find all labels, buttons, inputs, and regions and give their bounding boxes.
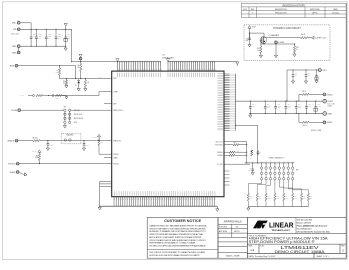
svg-text:OPT: OPT [308, 105, 311, 107]
svg-text:OPT: OPT [252, 105, 255, 107]
svg-text:C9: C9 [246, 38, 248, 40]
capacitor CIN5 [65, 29, 67, 37]
resistor R8 (OPT) [251, 150, 253, 156]
revision history table [242, 3, 347, 17]
svg-text:470uF: 470uF [318, 105, 322, 107]
svg-text:C16: C16 [308, 104, 311, 106]
U1 top-left VIN pin comb with bus [117, 61, 161, 71]
ground [249, 114, 251, 116]
wire PGOOD to U1 [19, 163, 112, 165]
capacitor C13 [275, 101, 277, 107]
svg-text:16V: 16V [48, 38, 50, 40]
svg-text:OPT: OPT [249, 170, 252, 172]
svg-text:OPT: OPT [37, 98, 40, 100]
svg-text:VOUT_LCL: VOUT_LCL [216, 141, 223, 143]
svg-text:Milpitas, CA 95035: Milpitas, CA 95035 [297, 222, 311, 225]
svg-text:TECHNOLOGY APPLICATIONS ENGINE: TECHNOLOGY APPLICATIONS ENGINEERING FOR … [149, 244, 206, 247]
svg-text:LINEAR: LINEAR [269, 221, 294, 230]
svg-text:APP ENG: APP ENG [219, 230, 228, 233]
node VOUT (net arrow) [248, 26, 251, 29]
svg-text:VERIFY PROPER AND RELIABLE OPE: VERIFY PROPER AND RELIABLE OPERATION IN … [149, 233, 203, 236]
svg-text:C13: C13 [278, 104, 281, 106]
svg-text:STEP-DOWN POWER μ MODULE ®: STEP-DOWN POWER μ MODULE ® [249, 240, 316, 244]
svg-text:PGOOD: PGOOD [8, 164, 16, 166]
resistor R12 [247, 193, 249, 201]
svg-text:VOUT: VOUT [322, 70, 326, 72]
svg-text:fSET: fSET [113, 104, 116, 106]
svg-text:R1: R1 [78, 65, 80, 67]
svg-text:VOSNS-: VOSNS- [217, 155, 223, 157]
svg-text:1uF: 1uF [246, 40, 249, 42]
turret E10 SGND [16, 171, 19, 174]
wire feed collector vertical [246, 142, 248, 163]
capacitor C2 [83, 141, 85, 144]
svg-text:1.21k: 1.21k [294, 197, 297, 199]
svg-text:100uF: 100uF [267, 105, 271, 107]
ground [247, 207, 249, 209]
svg-text:1uF: 1uF [295, 75, 297, 77]
resistor R1 [80, 63, 82, 71]
svg-text:COMP: COMP [21, 95, 25, 97]
turret E15 VOUT [318, 69, 321, 72]
svg-text:R3: R3 [63, 81, 65, 83]
ground [46, 148, 49, 151]
turret E1 VIN+ [17, 21, 20, 24]
resistor R14 [265, 193, 267, 201]
svg-text:2.61k: 2.61k [285, 197, 288, 199]
svg-text:LINEAR TECHNOLOGY HAS MADE A B: LINEAR TECHNOLOGY HAS MADE A BEST EFFORT… [149, 225, 207, 228]
ground [84, 89, 87, 92]
svg-text:R19: R19 [310, 196, 312, 198]
svg-text:10k: 10k [257, 50, 259, 52]
wire RUN [18, 66, 76, 79]
svg-text:R16: R16 [285, 196, 287, 198]
Linear Technology logo [253, 221, 268, 229]
svg-text:R13: R13 [296, 47, 299, 49]
diode D1 [78, 79, 80, 81]
resistor R10 [302, 121, 309, 123]
svg-text:R13: R13 [259, 196, 261, 198]
turret E8 TRACK [15, 139, 18, 142]
turret E3 GND [17, 45, 20, 48]
node PVIN arrow [79, 54, 82, 57]
svg-text:CIRCUIT THAT MEETS CUSTOMER-SU: CIRCUIT THAT MEETS CUSTOMER-SUPPLIED SPE… [149, 227, 206, 230]
svg-text:R8 84.5k: R8 84.5k [33, 137, 39, 139]
node 4-STEP_CLK input arrow [308, 37, 311, 39]
wire TRACK [18, 140, 33, 142]
wire VOSNS- row [298, 114, 300, 123]
svg-text:100uF: 100uF [278, 105, 282, 107]
svg-text:GND: GND [12, 52, 17, 54]
svg-text:0.01uF: 0.01uF [50, 145, 54, 147]
turret E14 VOSNS- [323, 121, 326, 124]
svg-text:JP2: JP2 [296, 169, 299, 171]
svg-text:CIN2: CIN2 [38, 34, 41, 36]
svg-text:R17: R17 [294, 196, 296, 198]
svg-text:GND: GND [12, 46, 17, 48]
U1 bottom GND pin comb with bus [100, 197, 218, 207]
resistor R13 [256, 193, 258, 201]
svg-text:1: 1 [252, 12, 253, 14]
svg-text:VIN: VIN [13, 29, 17, 31]
turret E2 VIN [17, 28, 20, 31]
svg-text:APP'D: APP'D [234, 230, 240, 233]
svg-text:APPLICATION. COMPONENT SUBSTIT: APPLICATION. COMPONENT SUBSTITUTION AND … [149, 236, 202, 239]
turret E4 GND [17, 51, 20, 54]
svg-text:CIN5: CIN5 [68, 34, 71, 36]
transistor Q1 [263, 33, 265, 37]
svg-text:OPT: OPT [56, 72, 59, 74]
wire VOUT to Q1 drain [250, 32, 265, 34]
svg-text:C17: C17 [318, 104, 321, 106]
ground [65, 46, 67, 48]
ground (tilted) [19, 172, 23, 174]
svg-text:BURST MODE: BURST MODE [74, 118, 83, 120]
wire [309, 93, 323, 95]
resistor R12 [260, 46, 262, 54]
svg-text:IC No.: IC No. [260, 245, 265, 247]
ground [304, 81, 307, 84]
turret E9 PGOOD [16, 162, 19, 165]
svg-text:22uF: 22uF [58, 36, 61, 38]
svg-text:RUN: RUN [113, 78, 116, 80]
ground [248, 45, 251, 48]
capacitor C9 [249, 33, 251, 38]
svg-text:MODE_PLLIN: MODE_PLLIN [113, 110, 123, 112]
wire GND rail [249, 113, 323, 115]
U1 bottom-right config stubs [224, 171, 230, 185]
wire resistor bank bottom rail [247, 201, 249, 207]
svg-text:DEMO CIRCUIT 1588A: DEMO CIRCUIT 1588A [275, 250, 326, 254]
svg-text:6.3V: 6.3V [288, 107, 291, 109]
svg-text:R14: R14 [268, 196, 270, 198]
sheet right border [345, 3, 347, 258]
svg-text:Fax: (408)434-0507: Fax: (408)434-0507 [297, 228, 312, 230]
wire jumper top rail [245, 162, 295, 164]
svg-text:REVISION HISTORY: REVISION HISTORY [282, 4, 305, 7]
svg-text:DATE: Thursday, May 13, 2010: DATE: Thursday, May 13, 2010 [249, 255, 275, 258]
svg-text:VOSNS+: VOSNS+ [327, 94, 333, 96]
wire COMP pin to RC row [49, 92, 112, 96]
wire CLKIN to JP1 [21, 109, 64, 111]
svg-text:TRACK: TRACK [7, 140, 14, 143]
svg-text:SCALE = NONE: SCALE = NONE [226, 255, 241, 258]
U1 left PGND stubs to ground [100, 180, 112, 182]
svg-text:6.3V: 6.3V [298, 107, 301, 109]
resistor R4 [84, 79, 86, 80]
wire VOUT rail [236, 100, 323, 102]
svg-text:0.1uF: 0.1uF [86, 145, 89, 147]
svg-text:CLKIN: CLKIN [11, 110, 17, 112]
capacitor C11 [249, 101, 251, 107]
ground [275, 44, 277, 55]
turret E5 PVIN [79, 57, 82, 60]
svg-text:R16 1k: R16 1k [301, 34, 306, 36]
resistor R15 [274, 193, 276, 201]
svg-text:56uF: 56uF [68, 36, 71, 38]
svg-text:4-STEP: 4-STEP [278, 42, 285, 44]
svg-text:CUSTOMER NOTICE: CUSTOMER NOTICE [164, 219, 202, 223]
svg-text:13.3k: 13.3k [259, 197, 262, 199]
svg-text:6.3V: 6.3V [68, 38, 71, 40]
svg-text:R12: R12 [257, 48, 260, 50]
U1 top-right pin numbers [169, 69, 216, 70]
approvals box [218, 218, 247, 259]
resistor R16 [301, 37, 309, 39]
svg-text:APPROVED: APPROVED [310, 8, 320, 11]
ground [62, 95, 67, 97]
wire RUN node row [60, 78, 112, 80]
svg-text:VOUT_MOD: VOUT_MOD [215, 144, 223, 146]
svg-text:100k: 100k [35, 157, 38, 159]
capacitor CIN4 [55, 29, 57, 37]
svg-text:100k: 100k [101, 141, 104, 143]
capacitor C19 [316, 70, 318, 72]
svg-text:GND: GND [328, 113, 333, 115]
wire TRACK to U1 [40, 140, 112, 142]
svg-text:SUPPLIED FOR USE WITH LINEAR T: SUPPLIED FOR USE WITH LINEAR TECHNOLOGY … [149, 254, 200, 257]
svg-text:VO_SEL: VO_SEL [217, 164, 223, 166]
wire VO_SEL row [224, 163, 250, 165]
wire INTVCC pin [99, 146, 112, 155]
U1 top-left pin name labels [118, 73, 161, 78]
resistor R9 [302, 93, 309, 95]
svg-text:LTC Confidential-For Customer: LTC Confidential-For Customer Use Only [297, 230, 330, 233]
svg-text:R5 0: R5 0 [234, 142, 237, 144]
svg-text:05-13-10: 05-13-10 [332, 12, 339, 14]
resistor R20 (OPT) + jumper pad [52, 95, 54, 97]
wire VOSNS- row with resistor (OPT) [224, 154, 229, 156]
turret E7 CLKIN [18, 109, 21, 112]
svg-text:JP1: JP1 [64, 107, 67, 109]
capacitor CIN1 [30, 29, 32, 37]
U1 right VOUT pin comb with collector [224, 74, 236, 130]
ground [64, 124, 66, 126]
resistor R7 [98, 137, 100, 139]
svg-text:REV: REV [341, 246, 344, 248]
node RUN junctions [66, 78, 67, 79]
wire VOSNS+ row with resistor (OPT) [224, 151, 229, 153]
ground [251, 173, 254, 176]
svg-text:Phone: (408)432-1900 www.line: Phone: (408)432-1900 www.linear.com [297, 225, 328, 228]
svg-text:INTVCC: INTVCC [113, 154, 120, 156]
svg-text:PRODUCTION: PRODUCTION [275, 12, 287, 14]
svg-text:22uF: 22uF [48, 36, 51, 38]
svg-text:PULSE SKIP: PULSE SKIP [74, 114, 82, 116]
svg-text:VOUT SELECT: VOUT SELECT [269, 157, 285, 159]
svg-text:1630 McCarthy Blvd.: 1630 McCarthy Blvd. [297, 219, 313, 222]
ground [236, 62, 239, 65]
svg-text:C18: C18 [308, 73, 311, 75]
svg-text:SGND: SGND [10, 172, 16, 174]
capacitor CIN3 [45, 29, 47, 37]
svg-text:CIN4: CIN4 [58, 34, 61, 36]
customer notice box [147, 218, 218, 259]
svg-text:C14: C14 [288, 104, 291, 106]
wire jumper to resistor fan-out [248, 180, 308, 193]
svg-text:0.1uF: 0.1uF [308, 75, 311, 77]
svg-text:INTVCC: INTVCC [32, 150, 37, 152]
resistor R2 (OPT) [59, 66, 61, 68]
resistor R19 [307, 193, 309, 201]
capacitor C4 (OPT) [257, 150, 259, 152]
ground [65, 85, 68, 88]
wire VOUT to E15 turret [287, 70, 318, 101]
svg-text:INTVCC: INTVCC [92, 136, 97, 138]
capacitor C5 [252, 163, 254, 167]
turret E12 VOUT [323, 99, 327, 103]
svg-text:N/A: N/A [251, 249, 255, 252]
svg-text:R15: R15 [276, 196, 278, 198]
svg-text:PERFORMANCE OR RELIABILITY. CO: PERFORMANCE OR RELIABILITY. CONTACT LINE… [149, 242, 195, 245]
resistor R18 [300, 193, 302, 201]
svg-text:R5: R5 [36, 155, 38, 157]
svg-text:SIZE: SIZE [249, 246, 253, 248]
svg-text:OPT: OPT [250, 157, 253, 159]
svg-text:R18: R18 [303, 196, 305, 198]
svg-text:100uF: 100uF [298, 105, 302, 107]
capacitor C16 [306, 101, 308, 107]
svg-text:R9 10: R9 10 [303, 91, 307, 93]
U1 bottom pin name labels [115, 191, 215, 196]
resistor R17 [292, 193, 294, 201]
wire VIN top rail [20, 28, 71, 30]
svg-text:VOUT: VOUT [328, 101, 334, 103]
svg-text:6.3V: 6.3V [267, 107, 270, 109]
ground [291, 81, 294, 84]
node PVIN bus arrow [116, 59, 119, 62]
svg-text:VOSNS-: VOSNS- [327, 122, 333, 124]
svg-text:HOWEVER, IT REMAINS THE CUSTOM: HOWEVER, IT REMAINS THE CUSTOMER'S RESPO… [149, 230, 206, 233]
turret E6 RUN [15, 64, 18, 67]
resistor R3 [65, 79, 67, 80]
jumper JP1 mode select [64, 109, 71, 124]
U1 top-right PGND pin comb with bus [166, 59, 237, 71]
svg-text:CIN3: CIN3 [48, 34, 51, 36]
capacitor CIN5 polarity box [64, 38, 68, 41]
svg-text:R10 10: R10 10 [303, 125, 307, 127]
svg-text:TECHNOLOGY: TECHNOLOGY [271, 230, 290, 232]
svg-text:51k: 51k [87, 82, 89, 84]
resistor R5 pullup [38, 152, 40, 153]
svg-text:VOSNS+: VOSNS+ [217, 152, 223, 154]
node INTVCC arrow [97, 134, 100, 137]
wire [309, 121, 323, 123]
U1 top-left pin numbers [118, 69, 161, 70]
svg-text:APPROVALS: APPROVALS [224, 220, 242, 224]
svg-text:CIRCUIT BOARD LAYOUT MAY SIGNI: CIRCUIT BOARD LAYOUT MAY SIGNIFICANTLY A… [149, 239, 206, 242]
wire gate row [260, 40, 262, 44]
svg-text:DYNAMIC LOAD CIRCUIT: DYNAMIC LOAD CIRCUIT [273, 27, 301, 30]
capacitor CIN2 [35, 29, 37, 37]
svg-text:COMP: COMP [113, 92, 118, 94]
svg-text:PGOOD: PGOOD [113, 163, 120, 165]
svg-text:VOUT: VOUT [252, 26, 256, 28]
wire VOUT_LCL row [224, 141, 247, 143]
wire 4-STEP_CLK row [266, 37, 301, 39]
ground [82, 148, 85, 151]
U1 top-right pin name labels [168, 73, 215, 78]
op-amp U1 LTM4611 module body [112, 71, 224, 197]
resistor R16 [283, 193, 285, 201]
resistor R13 [293, 46, 295, 53]
svg-text:1.5V - 5.5V: 1.5V - 5.5V [11, 34, 20, 36]
svg-text:C10: C10 [295, 73, 298, 75]
ground [259, 55, 262, 58]
svg-text:4-STEP_CLK: 4-STEP_CLK [315, 38, 327, 40]
svg-text:OPT: OPT [237, 150, 240, 152]
U1 right pin name labels (VOUT) [218, 74, 224, 130]
wire GND bottom rail [20, 45, 65, 47]
U1 bottom pin numbers [115, 198, 215, 200]
wire MODE_PLLIN to U1 [71, 109, 112, 111]
svg-text:+: + [62, 34, 63, 36]
wire VIN rail to PVIN bus [71, 29, 73, 61]
wire VOUT_LCL tap from comb [236, 125, 258, 163]
resistor R8 [33, 140, 40, 142]
svg-text:6.3V: 6.3V [278, 107, 281, 109]
svg-text:C12: C12 [267, 104, 270, 106]
svg-text:APP'D: APP'D [313, 11, 319, 14]
ground [315, 81, 318, 84]
svg-text:22uF: 22uF [38, 36, 41, 38]
jumper JP2 VOUT select grid [260, 163, 293, 180]
capacitor C18 [305, 70, 307, 75]
svg-text:16V: 16V [38, 38, 40, 40]
ground [293, 54, 296, 57]
svg-text:C11: C11 [252, 104, 254, 106]
wire VOSNS+ row [298, 94, 300, 101]
capacitor C3 (OPT) + jumper pad [33, 95, 35, 97]
turret E11 VOSNS+ [323, 93, 326, 96]
svg-text:C15: C15 [298, 104, 301, 106]
wire VOUT_MOD row with resistor R5 [224, 144, 233, 146]
capacitor C17 [315, 101, 317, 107]
svg-text:8.25k: 8.25k [268, 197, 271, 199]
svg-text:+: + [312, 103, 313, 105]
svg-text:1.5V - 5.5V: 1.5V - 5.5V [328, 103, 335, 105]
jumper JP3 [64, 139, 66, 141]
capacitor C12 [264, 101, 266, 107]
svg-text:PCB DES: PCB DES [219, 227, 228, 229]
capacitor C1 [47, 141, 49, 144]
svg-text:OPT: OPT [237, 157, 240, 159]
dynamic load circuit dashed box [244, 25, 330, 60]
title block frame [247, 218, 346, 259]
ground [216, 206, 218, 209]
U1 short left stubs [104, 103, 112, 105]
ground [77, 89, 80, 92]
svg-text:R12: R12 [250, 196, 252, 198]
node INTVCC arrow [38, 150, 41, 153]
svg-text:THIS CIRCUIT IS PROPRIETARY TO: THIS CIRCUIT IS PROPRIETARY TO LINEAR TE… [149, 251, 205, 254]
svg-text:DESCRIPTION: DESCRIPTION [275, 9, 287, 11]
capacitor C15 [295, 101, 297, 107]
capacitor C10 [292, 70, 294, 75]
svg-text:OPT: OPT [56, 98, 59, 100]
svg-text:16V: 16V [58, 38, 60, 40]
turret E13 GND [323, 112, 327, 116]
svg-text:RUN: RUN [10, 66, 15, 68]
customer notice divider [147, 249, 218, 251]
svg-text:CIN1: CIN1 [33, 34, 36, 36]
ground [99, 206, 101, 207]
wire VIN+ to rail [20, 23, 31, 30]
svg-text:D1: D1 [75, 85, 77, 87]
capacitor C17 polarity box [314, 108, 318, 111]
jumper TRACK/SS dashed box [61, 133, 81, 144]
svg-text:1M: 1M [63, 83, 65, 85]
